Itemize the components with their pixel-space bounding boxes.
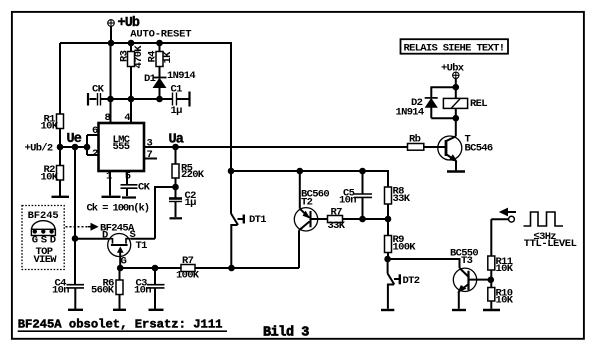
svg-text:1K: 1K xyxy=(162,51,174,64)
wire y=171 row xyxy=(231,171,388,187)
wire left rail x=60 xyxy=(59,43,61,114)
svg-text:10n: 10n xyxy=(339,195,356,207)
svg-text:D: D xyxy=(102,230,108,242)
ground pin1 xyxy=(102,196,121,198)
svg-text:Bild 3: Bild 3 xyxy=(263,326,309,341)
transistor T BC546 xyxy=(438,136,465,172)
node junction REL/T collector xyxy=(454,116,459,121)
wire pin5 to Ck xyxy=(126,171,128,184)
svg-text:+Ubx: +Ubx xyxy=(441,63,465,75)
svg-text:BF245: BF245 xyxy=(28,210,59,222)
svg-text:CK: CK xyxy=(138,182,151,194)
switch DT2 xyxy=(381,259,400,310)
svg-text:AUTO-RESET: AUTO-RESET xyxy=(130,29,191,41)
svg-text:555: 555 xyxy=(113,141,130,153)
svg-text:R3: R3 xyxy=(118,50,130,62)
svg-text:D: D xyxy=(50,235,56,247)
wire drain lead xyxy=(75,238,108,240)
node Ua junction xyxy=(173,145,178,150)
svg-text:S: S xyxy=(41,235,47,247)
svg-text:R7: R7 xyxy=(182,255,194,267)
svg-text:1µ: 1µ xyxy=(171,105,183,117)
svg-text:T3: T3 xyxy=(461,255,473,267)
svg-text:100K: 100K xyxy=(393,242,417,254)
wire S-branch from C2 node to T1 source xyxy=(155,187,176,239)
dotted box BF245 package xyxy=(22,206,64,270)
wire Ue row xyxy=(60,146,87,148)
dotted arrow to BF245A xyxy=(66,224,98,230)
ground below R2 xyxy=(52,196,70,198)
output terminal xyxy=(491,208,516,222)
wire pin7 open stub xyxy=(144,158,157,160)
node junction R8 bottom xyxy=(386,217,391,222)
svg-text:G: G xyxy=(32,235,38,247)
svg-text:1N914: 1N914 xyxy=(167,70,195,82)
relay REL coil xyxy=(443,98,467,136)
svg-text:Ue: Ue xyxy=(67,132,82,147)
resistor R7 33K xyxy=(328,216,389,223)
wire D2 branch xyxy=(431,87,456,97)
svg-text:10n: 10n xyxy=(52,285,69,297)
svg-text:2: 2 xyxy=(92,148,98,160)
svg-text:Ua: Ua xyxy=(169,133,184,148)
resistor Rb xyxy=(408,144,424,151)
resistor R9 xyxy=(385,219,392,259)
svg-text:1: 1 xyxy=(106,171,112,183)
svg-text:CK: CK xyxy=(92,84,105,96)
node C3 junction xyxy=(153,266,158,271)
resistor R11 xyxy=(488,219,495,287)
node junction Ck/pin8 xyxy=(108,97,113,102)
node junction T2 emitter xyxy=(298,169,303,174)
svg-text:R7: R7 xyxy=(331,207,343,219)
node junction T3 collector xyxy=(489,278,494,283)
node junction C5 bottom xyxy=(360,217,365,222)
capacitor C3 xyxy=(147,268,165,310)
svg-text:Ck = 100n(k): Ck = 100n(k) xyxy=(87,203,149,215)
switch DT1 xyxy=(231,214,244,269)
capacitor C2 xyxy=(169,199,182,219)
box RELAIS SIEHE TEXT xyxy=(401,39,509,54)
wire pin6/pin2 bracket xyxy=(87,135,99,155)
svg-text:5: 5 xyxy=(125,171,131,183)
wire y=259 to T3 base xyxy=(388,259,460,268)
node Ue junctions xyxy=(58,145,63,150)
node junction +Ub/x110 xyxy=(109,41,114,46)
svg-text:C1: C1 xyxy=(171,84,183,96)
capacitor C5 xyxy=(354,171,372,219)
svg-text:33K: 33K xyxy=(328,220,346,232)
node junction y171 x231 xyxy=(229,169,234,174)
capacitor Ck at pin5 xyxy=(121,185,138,198)
svg-text:10n: 10n xyxy=(134,285,151,297)
node junction +Ubx xyxy=(454,85,459,90)
transistor T2 BC560 xyxy=(294,171,327,268)
svg-text:10K: 10K xyxy=(41,121,59,133)
svg-text:BC546: BC546 xyxy=(465,143,493,155)
svg-text:10K: 10K xyxy=(496,295,514,307)
node junction R9/DT2 xyxy=(385,257,390,262)
svg-text:3: 3 xyxy=(147,138,153,150)
svg-text:8: 8 xyxy=(105,112,111,124)
svg-text:100K: 100K xyxy=(176,270,200,282)
svg-text:220K: 220K xyxy=(181,169,205,181)
node DT1 bottom junction xyxy=(229,266,234,271)
node G junction xyxy=(118,266,123,271)
resistor R6 xyxy=(113,268,126,310)
transistor T3 BC550 xyxy=(452,268,491,310)
resistor R4 xyxy=(156,41,163,77)
svg-text:6: 6 xyxy=(92,125,98,137)
supply +Ub xyxy=(107,19,114,43)
wire pin1 to ground xyxy=(109,171,111,196)
capacitor C4 xyxy=(67,285,85,310)
resistor R2 xyxy=(57,166,64,197)
wire top rail y=43 xyxy=(60,43,231,214)
wire x=110.5 to pin8 xyxy=(110,43,112,123)
resistor R8 xyxy=(385,187,392,219)
svg-text:470K: 470K xyxy=(133,45,145,69)
svg-text:R4: R4 xyxy=(146,51,158,63)
supply +Ubx xyxy=(452,72,459,99)
svg-text:D1: D1 xyxy=(144,73,156,85)
resistor R7 100K xyxy=(181,265,299,272)
svg-text:4: 4 xyxy=(124,112,130,124)
svg-text:560K: 560K xyxy=(91,285,115,297)
wire Ua from pin3 to Rb xyxy=(144,146,408,148)
node junction C5 top xyxy=(360,169,365,174)
svg-text:1µ: 1µ xyxy=(185,197,197,209)
squarewave symbol xyxy=(524,212,564,226)
svg-text:DT2: DT2 xyxy=(403,275,420,287)
wire gate row y=268 xyxy=(120,267,181,269)
svg-text:DT1: DT1 xyxy=(249,214,266,226)
diode D2 xyxy=(425,98,456,118)
svg-text:+Ub/2: +Ub/2 xyxy=(25,143,53,155)
svg-text:7: 7 xyxy=(147,149,153,161)
svg-text:BF245A obsolet, Ersatz: J111: BF245A obsolet, Ersatz: J111 xyxy=(18,318,223,332)
node D junction xyxy=(73,236,78,241)
transistor T1 JFET BF245A xyxy=(108,234,155,269)
svg-text:Rb: Rb xyxy=(409,134,421,146)
resistor R10 xyxy=(483,288,500,311)
svg-text:REL: REL xyxy=(470,98,487,110)
underline of BF245A obsolet note xyxy=(18,330,227,332)
capacitor C1 xyxy=(173,92,190,107)
resistor R5 xyxy=(172,147,179,198)
IC U1 LMC555 xyxy=(99,123,145,171)
svg-text:10K: 10K xyxy=(41,172,59,184)
svg-text:RELAIS SIEHE TEXT!: RELAIS SIEHE TEXT! xyxy=(404,43,505,55)
wire x=75 down to T1 drain row xyxy=(74,147,76,285)
svg-text:T1: T1 xyxy=(136,240,148,252)
svg-text:10K: 10K xyxy=(496,263,514,275)
svg-text:1N914: 1N914 xyxy=(396,107,424,119)
svg-text:TTL-LEVEL: TTL-LEVEL xyxy=(524,238,577,250)
wire Rb to base xyxy=(424,146,445,148)
svg-text:G: G xyxy=(121,256,127,268)
resistor R1 xyxy=(57,114,64,166)
svg-text:33K: 33K xyxy=(393,193,411,205)
svg-text:T2: T2 xyxy=(301,197,313,209)
wire y=99 row xyxy=(101,98,172,100)
capacitor Ck (top, external terminal) xyxy=(88,93,101,106)
resistor R3 xyxy=(128,41,135,123)
diode D1 xyxy=(153,78,167,102)
svg-text:VIEW: VIEW xyxy=(34,254,58,266)
